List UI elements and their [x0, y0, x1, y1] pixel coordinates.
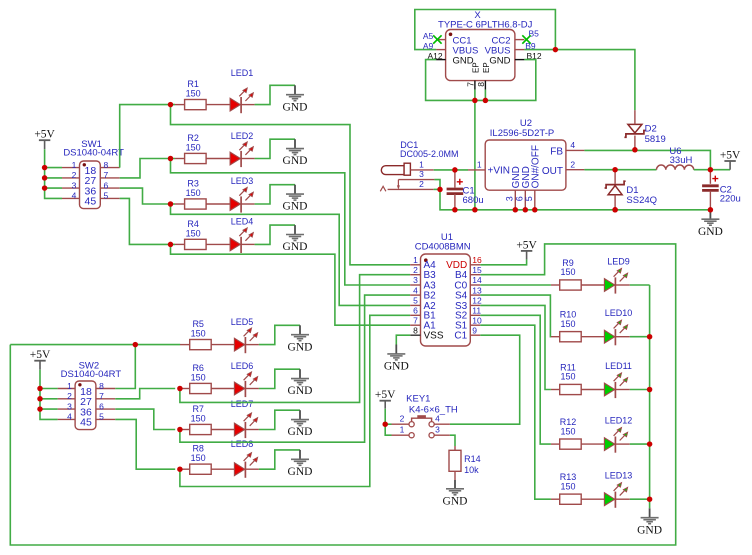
- svg-text:4: 4: [570, 140, 575, 150]
- svg-text:GND: GND: [443, 495, 468, 507]
- svg-text:150: 150: [560, 426, 575, 436]
- svg-text:150: 150: [191, 453, 206, 463]
- svg-text:DS1040-04RT: DS1040-04RT: [61, 369, 122, 380]
- svg-text:KEY1: KEY1: [406, 394, 430, 405]
- svg-text:12: 12: [472, 296, 482, 306]
- svg-text:LED2: LED2: [231, 131, 254, 141]
- svg-text:LED3: LED3: [231, 176, 254, 186]
- svg-text:ON#/OFF: ON#/OFF: [530, 145, 541, 188]
- svg-text:GND: GND: [283, 201, 308, 213]
- svg-text:7: 7: [465, 82, 475, 87]
- svg-text:2: 2: [72, 170, 77, 180]
- svg-text:LED6: LED6: [231, 361, 254, 371]
- svg-text:GND: GND: [288, 466, 313, 478]
- svg-text:GND: GND: [637, 524, 662, 536]
- svg-text:5819: 5819: [645, 134, 666, 145]
- svg-text:3: 3: [435, 424, 440, 434]
- svg-text:K4-6×6_TH: K4-6×6_TH: [409, 404, 458, 415]
- svg-text:OUT: OUT: [542, 166, 563, 177]
- svg-text:1: 1: [400, 424, 405, 434]
- svg-text:3: 3: [504, 196, 514, 201]
- svg-text:3: 3: [72, 180, 77, 190]
- svg-text:6: 6: [104, 180, 109, 190]
- svg-text:VSS: VSS: [424, 331, 444, 342]
- svg-text:GND: GND: [288, 385, 313, 397]
- svg-text:16: 16: [472, 255, 482, 265]
- svg-text:150: 150: [560, 481, 575, 491]
- svg-text:1: 1: [72, 160, 77, 170]
- svg-text:150: 150: [191, 414, 206, 424]
- svg-text:FB: FB: [550, 146, 563, 157]
- svg-text:LED11: LED11: [605, 361, 632, 371]
- svg-text:3: 3: [67, 401, 72, 411]
- svg-text:GND: GND: [283, 155, 308, 167]
- svg-text:GND: GND: [288, 341, 313, 353]
- svg-text:8: 8: [104, 160, 109, 170]
- svg-text:GND: GND: [283, 101, 308, 113]
- svg-text:R2: R2: [187, 133, 199, 143]
- svg-text:GND: GND: [283, 241, 308, 253]
- svg-text:C1: C1: [454, 331, 467, 342]
- svg-text:4: 4: [413, 285, 418, 295]
- svg-text:+5V: +5V: [30, 349, 51, 361]
- svg-text:DC005-2.0MM: DC005-2.0MM: [400, 149, 459, 159]
- svg-text:15: 15: [472, 265, 482, 275]
- svg-text:11: 11: [472, 306, 481, 316]
- svg-text:150: 150: [186, 228, 201, 238]
- svg-text:LED9: LED9: [607, 256, 630, 266]
- svg-text:1: 1: [413, 255, 418, 265]
- svg-text:GND: GND: [489, 56, 510, 67]
- svg-text:A5: A5: [423, 31, 434, 41]
- svg-text:45: 45: [85, 196, 97, 208]
- svg-text:+5V: +5V: [375, 389, 396, 401]
- svg-text:7: 7: [104, 170, 109, 180]
- svg-text:150: 150: [191, 373, 206, 383]
- svg-text:R1: R1: [187, 79, 199, 89]
- svg-text:10: 10: [472, 315, 482, 325]
- svg-text:3: 3: [413, 275, 418, 285]
- svg-text:GND: GND: [288, 426, 313, 438]
- svg-text:6: 6: [514, 196, 524, 201]
- svg-text:R8: R8: [192, 444, 204, 454]
- svg-text:+VIN: +VIN: [488, 165, 511, 176]
- svg-text:EP: EP: [471, 62, 480, 73]
- svg-text:7: 7: [99, 391, 104, 401]
- svg-text:SS24Q: SS24Q: [626, 195, 657, 206]
- svg-text:14: 14: [472, 275, 482, 285]
- svg-text:6: 6: [99, 401, 104, 411]
- svg-text:5: 5: [413, 296, 418, 306]
- svg-text:LED8: LED8: [231, 439, 254, 449]
- svg-text:IL2596-5D2T-P: IL2596-5D2T-P: [490, 128, 554, 139]
- svg-text:2: 2: [419, 179, 424, 189]
- svg-text:4: 4: [67, 412, 72, 422]
- svg-text:R3: R3: [187, 179, 199, 189]
- svg-text:45: 45: [80, 417, 92, 429]
- svg-text:220u: 220u: [720, 194, 741, 205]
- svg-text:+5V: +5V: [516, 239, 537, 251]
- svg-text:1: 1: [477, 160, 482, 170]
- svg-text:1: 1: [67, 381, 72, 391]
- svg-text:2: 2: [400, 413, 405, 423]
- svg-text:150: 150: [186, 188, 201, 198]
- svg-text:LED13: LED13: [605, 471, 633, 481]
- svg-text:150: 150: [560, 267, 575, 277]
- svg-text:5: 5: [524, 196, 534, 201]
- svg-text:5: 5: [99, 412, 104, 422]
- svg-text:R4: R4: [187, 219, 199, 229]
- svg-text:LED1: LED1: [231, 68, 254, 78]
- svg-text:10k: 10k: [464, 465, 479, 475]
- svg-text:33uH: 33uH: [670, 155, 693, 166]
- svg-text:1: 1: [419, 160, 424, 170]
- svg-text:R6: R6: [192, 363, 204, 373]
- svg-text:LED10: LED10: [605, 308, 633, 318]
- svg-text:+5V: +5V: [34, 129, 55, 141]
- svg-text:2: 2: [67, 391, 72, 401]
- svg-text:R5: R5: [192, 319, 204, 329]
- svg-text:6: 6: [413, 306, 418, 316]
- svg-text:TYPE-C 6PLTH6.8-DJ: TYPE-C 6PLTH6.8-DJ: [438, 19, 533, 30]
- svg-text:GND: GND: [698, 226, 723, 238]
- svg-text:LED12: LED12: [605, 416, 633, 426]
- svg-text:5: 5: [104, 191, 109, 201]
- svg-text:2: 2: [413, 265, 418, 275]
- svg-text:150: 150: [560, 319, 575, 329]
- svg-text:LED7: LED7: [231, 399, 254, 409]
- svg-text:7: 7: [413, 315, 418, 325]
- svg-text:DS1040-04RT: DS1040-04RT: [63, 148, 124, 159]
- svg-text:8: 8: [99, 381, 104, 391]
- svg-text:2: 2: [570, 159, 575, 169]
- svg-text:8: 8: [413, 325, 418, 335]
- svg-text:LED4: LED4: [231, 217, 254, 227]
- svg-text:150: 150: [186, 143, 201, 153]
- svg-text:R14: R14: [464, 454, 481, 464]
- svg-text:GND: GND: [384, 361, 409, 373]
- svg-text:13: 13: [472, 285, 482, 295]
- svg-text:3: 3: [419, 169, 424, 179]
- svg-text:4: 4: [72, 191, 77, 201]
- svg-text:CD4008BMN: CD4008BMN: [415, 241, 471, 252]
- svg-text:4: 4: [435, 413, 440, 423]
- svg-text:150: 150: [186, 89, 201, 99]
- svg-text:LED5: LED5: [231, 317, 254, 327]
- svg-text:150: 150: [191, 329, 206, 339]
- svg-text:680u: 680u: [463, 195, 484, 206]
- svg-text:8: 8: [476, 82, 486, 87]
- svg-text:EP: EP: [482, 62, 491, 73]
- svg-text:D2: D2: [645, 124, 657, 135]
- svg-text:150: 150: [560, 372, 575, 382]
- svg-text:R7: R7: [192, 404, 204, 414]
- svg-text:+5V: +5V: [720, 150, 741, 162]
- svg-text:9: 9: [472, 325, 477, 335]
